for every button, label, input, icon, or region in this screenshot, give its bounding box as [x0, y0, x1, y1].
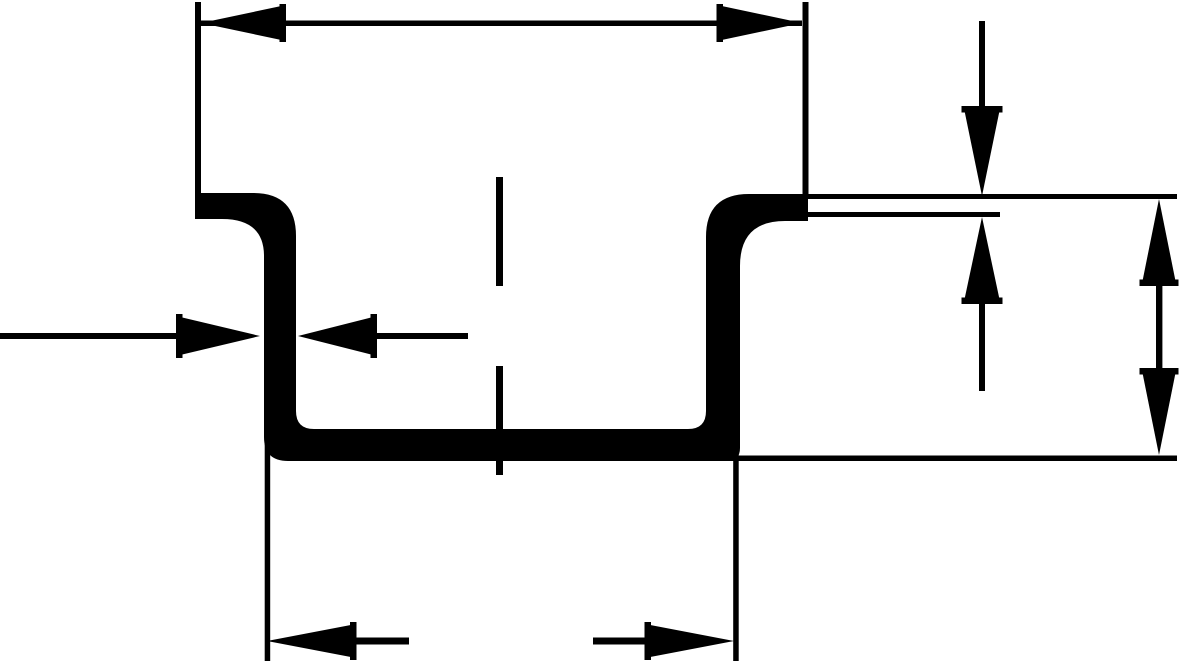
wall width dimension left tail line [0, 333, 176, 339]
vertical centerline dash 2 [496, 366, 503, 475]
wall width dimension right arrowhead [298, 316, 377, 356]
bottom dimension right arrowhead [645, 624, 734, 658]
bottom dimension extension line left [265, 438, 271, 661]
top dimension right arrowhead [717, 5, 802, 41]
height dimension upper arrowhead [1142, 199, 1177, 286]
wall width dimension right tail line [377, 333, 468, 339]
wall width dimension left arrowhead [176, 316, 260, 356]
height dimension lower arrowhead [1142, 368, 1177, 455]
top dimension line [201, 21, 802, 27]
bottom dimension left tail line [356, 638, 409, 645]
bottom dimension extension line right [733, 453, 739, 661]
material thickness dimension lower tail [979, 304, 985, 391]
material thickness dimension lower arrowhead [964, 217, 1001, 304]
material thickness leader line top [800, 194, 1177, 199]
DIN rail hat profile cross-section [195, 193, 808, 461]
bottom dimension right tail line [593, 638, 645, 645]
height dimension connector line [1156, 284, 1162, 370]
material thickness leader line bottom [808, 212, 1000, 217]
material thickness dimension upper arrowhead [964, 106, 1001, 196]
top dimension left arrowhead [201, 5, 286, 41]
height dimension bottom leader line [713, 456, 1177, 462]
top dimension extension line right [803, 2, 809, 196]
vertical centerline dash 1 [496, 177, 503, 286]
bottom dimension left arrowhead [267, 624, 356, 658]
material thickness dimension upper tail [979, 21, 985, 106]
top dimension extension line left [195, 2, 201, 195]
